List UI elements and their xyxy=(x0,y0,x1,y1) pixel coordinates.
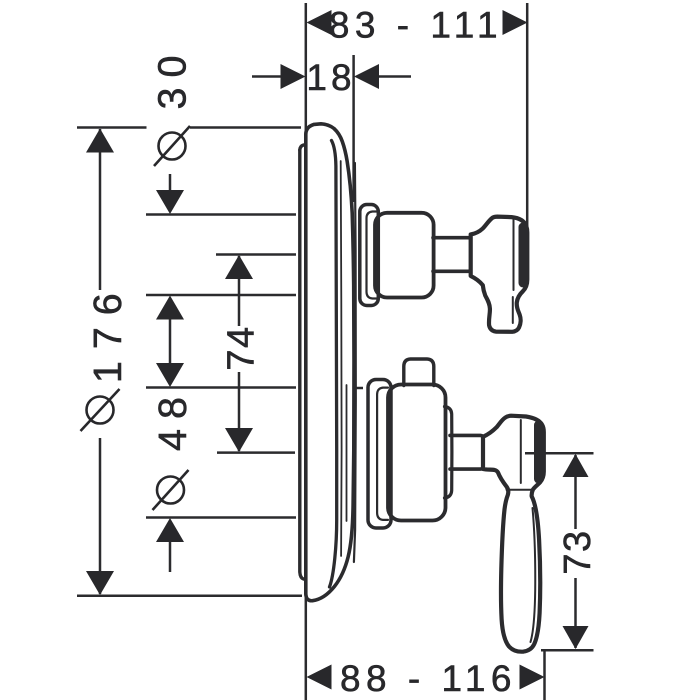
arrow 74 up xyxy=(225,255,253,279)
arrow d176 up xyxy=(86,129,114,153)
upper valve ring inner edge xyxy=(367,212,378,299)
lower valve collar xyxy=(445,407,452,499)
lever hub face split line xyxy=(520,420,522,483)
arrow d30 up xyxy=(156,296,184,320)
arrow 73 down xyxy=(563,626,589,649)
lower valve flange contact thin line xyxy=(346,385,348,521)
svg-text:74: 74 xyxy=(221,325,263,370)
lever neck joint line xyxy=(507,489,534,491)
escutcheon plate dome silhouette (back edge + top curve + face + bottom curve) xyxy=(306,124,354,601)
tick d48 bottom y=517.5 xyxy=(146,516,296,519)
arrow 83-111 right xyxy=(503,10,528,35)
dim tail d48 x=170 xyxy=(169,540,172,572)
arrow 83-111 left xyxy=(307,10,332,35)
lower valve ring inner edge xyxy=(377,388,388,520)
extension line 18 right (plate face) x=353.6 xyxy=(352,55,355,202)
tick 74 bottom y=452.6 xyxy=(217,451,295,454)
svg-text:30: 30 xyxy=(151,46,195,110)
arrow d30 down xyxy=(156,190,184,214)
extension line bottom right (lever face) x=544.5 xyxy=(543,650,546,700)
dim tail 18 left xyxy=(252,75,282,78)
svg-text:48: 48 xyxy=(151,387,195,451)
tick d30 top y=214.5 xyxy=(146,213,296,216)
tick d30 bottom y=295 xyxy=(146,294,296,297)
svg-text:83 - 111: 83 - 111 xyxy=(329,5,503,46)
upper valve body xyxy=(375,213,434,298)
upper valve ring outer xyxy=(360,205,379,306)
plate face front edge thin line xyxy=(354,163,356,562)
dim line 74 x=239 xyxy=(238,256,241,326)
upper valve stem xyxy=(433,238,471,272)
tick 73 top y=453.2 xyxy=(525,452,594,455)
extension line left (wall plane) x=306 xyxy=(305,3,308,700)
lever handle hub and grip outline xyxy=(483,416,544,652)
tick 74 top y=254.5 xyxy=(216,253,296,256)
escutcheon plate wall rim line A xyxy=(300,150,304,579)
svg-text:176: 176 xyxy=(86,281,130,383)
arrow d176 down xyxy=(86,571,114,595)
extension line right top (cross handle face) x=527 xyxy=(526,3,529,226)
tick top plate y=127.5 xyxy=(77,126,147,129)
arrow 88-116 left xyxy=(307,665,332,690)
dim line 73 x=575.5 xyxy=(574,455,577,529)
lever hub dark side band xyxy=(534,425,543,479)
cross handle outline xyxy=(471,217,528,332)
lower valve stem xyxy=(450,435,483,469)
arrow d48 down xyxy=(156,363,184,387)
cross handle dark side band xyxy=(519,227,528,283)
dim leader d30 x=170 xyxy=(169,174,172,192)
tick d48 top y=387.5 xyxy=(146,386,296,389)
safety stop button xyxy=(404,359,434,386)
lever grip inner line xyxy=(531,508,536,642)
tick 73 bottom y=650.3 xyxy=(541,649,594,652)
arrow 73 up xyxy=(563,454,589,477)
tick bottom plate y=595.7 xyxy=(77,594,302,597)
plate crease companion thin line xyxy=(340,161,343,556)
cross handle lower arm inner line xyxy=(512,297,514,323)
svg-text:88 - 116: 88 - 116 xyxy=(340,658,517,699)
diameter symbol for d48 xyxy=(157,477,184,504)
dim tail 18 right xyxy=(378,75,411,78)
lower valve body xyxy=(388,385,446,521)
dim connector d30/d48 x=170 xyxy=(169,317,172,366)
diameter symbol for d30 xyxy=(159,133,186,160)
svg-text:18: 18 xyxy=(306,57,355,98)
arrow 18 right xyxy=(354,64,379,89)
plate crease line (step between dome and plateau) xyxy=(330,141,337,588)
diameter symbol for d176 xyxy=(87,397,114,424)
svg-text:73: 73 xyxy=(557,529,599,574)
arrow 18 left xyxy=(281,64,306,89)
arrow 88-116 right xyxy=(520,665,545,690)
cross handle face split line xyxy=(513,219,515,290)
dim line d176 x=100 xyxy=(99,129,102,290)
lower valve ring outer xyxy=(368,380,391,529)
arrow d48 up xyxy=(156,518,184,542)
arrow 74 down xyxy=(225,428,253,452)
